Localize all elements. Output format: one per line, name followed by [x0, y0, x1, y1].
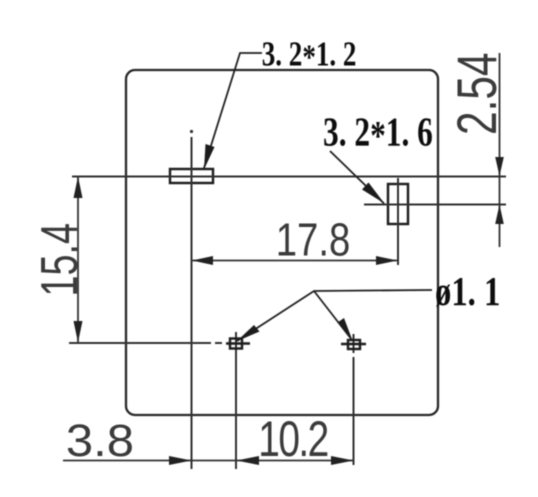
arrow 17.8 right — [376, 256, 398, 265]
pin 1 (square pad with cross) — [226, 339, 250, 349]
arrow 3.8 (tip at x=191.5, points right) — [169, 456, 192, 465]
body outline — [126, 70, 438, 415]
node: centerline dot above slot1 — [190, 130, 193, 133]
leader arrow at slot2 — [362, 183, 385, 204]
arrow 2.54 upper (points down at y=176) — [495, 157, 504, 176]
svg-text:2.54: 2.54 — [445, 52, 508, 135]
arrow 15.4 bottom — [74, 321, 83, 343]
svg-text:3. 2*1. 2: 3. 2*1. 2 — [262, 34, 357, 76]
dimension 15.4 line — [77, 177, 79, 344]
dimension bottom line (3.8 / 10.2) — [63, 460, 354, 462]
pin 2 (square pad with cross) — [341, 340, 366, 349]
arrow 10.2 left (tip at x=236, points left) — [237, 456, 260, 465]
leader arrow at slot1 — [204, 144, 215, 170]
wire: pin2 vertical extension x=353.5 — [353, 334, 355, 353]
arrow 2.54 lower (points up at y=204.5) — [495, 205, 504, 225]
svg-text:17.8: 17.8 — [276, 214, 351, 265]
leader for slot 3.2*1.6 — [330, 151, 384, 204]
svg-text:10.2: 10.2 — [258, 411, 327, 467]
wire: slot2 vertical centerline x=398 — [397, 178, 399, 265]
wire: pin-row horizontal y=343 — [69, 342, 211, 344]
leader for slot 3.2*1.2 — [204, 53, 262, 168]
svg-text:15.4: 15.4 — [30, 223, 88, 297]
svg-text:3. 2*1. 6: 3. 2*1. 6 — [323, 108, 433, 158]
wire: slot1 vertical centerline x=191.5 — [191, 137, 193, 469]
leader arrow at pin1 — [237, 325, 260, 342]
slot 3.2*1.6 — [388, 184, 408, 224]
leader for pin holes Ø1.1 — [237, 290, 432, 341]
wire: long horizontal centerline y=176 — [72, 176, 506, 178]
arrow 15.4 top — [74, 177, 83, 199]
wire: pin1 vertical extension x=236 — [235, 332, 237, 469]
dimension 17.8 line — [192, 260, 398, 262]
wire: slot2 center horizontal y=204 — [364, 204, 506, 206]
svg-text:ø1. 1: ø1. 1 — [435, 270, 500, 315]
svg-text:3.8: 3.8 — [66, 415, 134, 466]
leader arrow at pin2 — [338, 318, 353, 341]
arrow 17.8 left — [192, 256, 213, 265]
slot 3.2*1.2 — [170, 169, 213, 183]
leader branch to pin2 — [314, 291, 352, 340]
dimension 2.54 line — [499, 53, 501, 247]
arrow 10.2 right (tip at x=353.5, points right) — [331, 456, 354, 465]
